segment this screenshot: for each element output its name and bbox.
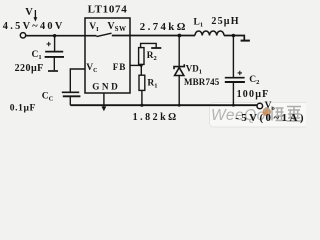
svg-text:GND: GND <box>92 82 120 92</box>
svg-text:100µF: 100µF <box>237 89 270 100</box>
svg-text:2.74kΩ: 2.74kΩ <box>140 21 188 33</box>
wire VC pin <box>70 69 85 92</box>
svg-text:1.82kΩ: 1.82kΩ <box>133 112 179 123</box>
capacitor CC <box>62 92 81 105</box>
ground stub right <box>241 40 250 42</box>
resistor R2 <box>139 48 144 65</box>
node C1 junction <box>53 34 56 37</box>
node Vin input terminal <box>20 33 25 38</box>
wire input to IC <box>26 35 97 37</box>
watermark box <box>210 103 310 128</box>
label VI with down arrow <box>25 7 37 22</box>
resistor R1 <box>140 64 142 75</box>
node R1 rail junction <box>140 104 143 107</box>
op-amp U1 LT1074 box <box>85 18 130 93</box>
svg-text:V: V <box>25 7 33 18</box>
diode VD1 MBR745 schottky <box>174 64 184 75</box>
wire FB pin to divider <box>130 64 141 66</box>
wire R2 top to ground stub <box>141 43 157 47</box>
node C2 junction <box>232 34 236 38</box>
svg-text:LT1074: LT1074 <box>88 4 128 16</box>
ground GND pin arrow <box>103 93 105 107</box>
ground stub near R2 <box>151 47 161 49</box>
wire diode branch <box>178 36 180 67</box>
capacitor C1 <box>45 36 64 71</box>
svg-text:MBR745: MBR745 <box>184 77 220 87</box>
svg-text:-5V(0~1A): -5V(0~1A) <box>235 112 306 124</box>
ground rail (-5V rail) <box>70 104 257 106</box>
svg-text:4.5V~40V: 4.5V~40V <box>3 21 65 32</box>
svg-text:25µH: 25µH <box>211 16 239 27</box>
svg-text:0.1µF: 0.1µF <box>10 103 36 113</box>
node output terminal <box>257 103 263 109</box>
node diode junction <box>178 34 182 38</box>
svg-text:FB: FB <box>113 62 126 72</box>
wire L1 to gnd stub <box>224 36 244 41</box>
wire switch to VSW exit <box>112 35 195 37</box>
node FB junction <box>140 64 143 67</box>
capacitor C2 <box>225 36 245 106</box>
switch blade <box>97 33 112 36</box>
inductor L1 <box>195 31 224 36</box>
svg-text:220µF: 220µF <box>15 63 44 74</box>
